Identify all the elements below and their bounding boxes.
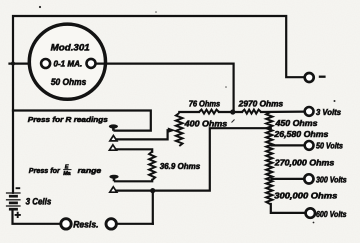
- svg-text:400 Ohms: 400 Ohms: [184, 118, 228, 128]
- svg-text:range: range: [78, 166, 102, 175]
- svg-text:300 Volts: 300 Volts: [316, 175, 347, 185]
- svg-text:450 Ohms: 450 Ohms: [274, 118, 317, 128]
- svg-text:26,580 Ohms: 26,580 Ohms: [273, 129, 328, 139]
- svg-text:50 Volts: 50 Volts: [316, 140, 343, 150]
- svg-text:Resis.: Resis.: [73, 219, 98, 229]
- svg-text:Press for: Press for: [29, 166, 61, 175]
- svg-text:3 Volts: 3 Volts: [316, 107, 341, 117]
- svg-text:50 Ohms: 50 Ohms: [51, 77, 86, 87]
- svg-text:300,000 Ohms: 300,000 Ohms: [274, 191, 337, 201]
- svg-text:Mod.301: Mod.301: [51, 42, 90, 53]
- svg-text:2970 Ohms: 2970 Ohms: [238, 100, 284, 109]
- svg-text:0-1 MA.: 0-1 MA.: [54, 60, 83, 69]
- svg-text:36.9 Ohms: 36.9 Ohms: [160, 162, 201, 171]
- svg-text:600 Volts: 600 Volts: [316, 209, 347, 219]
- svg-text:270,000 Ohms: 270,000 Ohms: [274, 158, 335, 168]
- svg-text:Press for R readings: Press for R readings: [28, 115, 108, 124]
- svg-text:76 Ohms: 76 Ohms: [189, 100, 221, 109]
- svg-text:3 Cells: 3 Cells: [26, 196, 52, 206]
- svg-text:Ma: Ma: [63, 171, 70, 177]
